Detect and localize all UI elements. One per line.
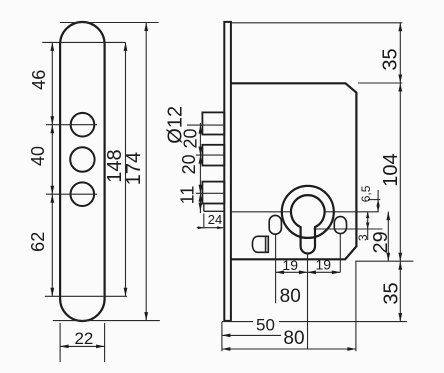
svg-text:46: 46	[29, 70, 49, 90]
svg-text:3: 3	[356, 234, 370, 241]
svg-text:29: 29	[370, 231, 392, 253]
svg-text:174: 174	[123, 152, 145, 185]
svg-text:11: 11	[178, 186, 198, 205]
svg-text:35: 35	[380, 48, 402, 70]
svg-text:35: 35	[381, 282, 403, 304]
svg-text:20: 20	[179, 154, 199, 174]
svg-text:62: 62	[28, 232, 48, 252]
svg-text:22: 22	[74, 329, 93, 348]
svg-text:6,5: 6,5	[359, 185, 373, 202]
svg-text:24: 24	[208, 212, 222, 227]
svg-text:19: 19	[282, 257, 298, 273]
svg-text:80: 80	[280, 286, 301, 307]
svg-text:104: 104	[380, 153, 402, 186]
svg-text:40: 40	[28, 146, 48, 166]
svg-text:80: 80	[283, 328, 304, 349]
svg-text:20: 20	[181, 128, 201, 148]
svg-text:50: 50	[256, 316, 275, 335]
svg-text:19: 19	[316, 256, 332, 272]
